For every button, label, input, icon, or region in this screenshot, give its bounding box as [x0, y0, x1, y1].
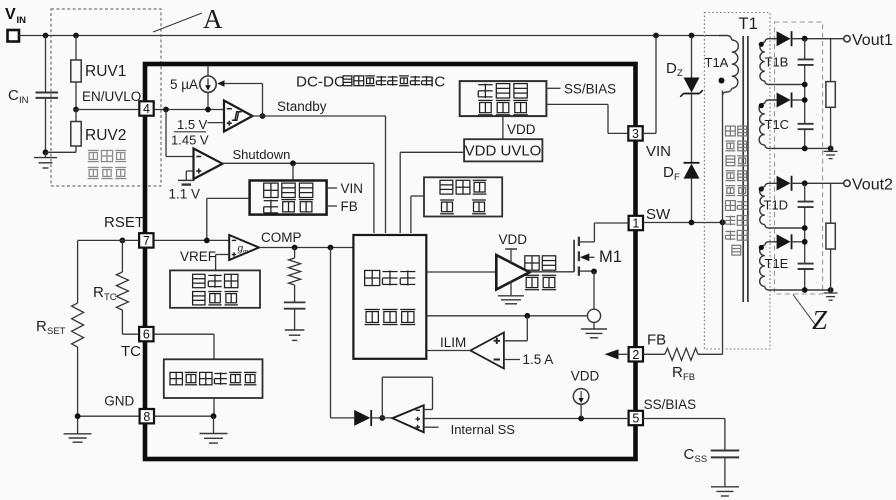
- winding T1A primary: [719, 36, 732, 41]
- svg-text:VIN: VIN: [646, 143, 671, 160]
- block U8 logic control circuit: [353, 235, 426, 359]
- capacitor CIN: [45, 36, 47, 92]
- wire vout2 rail: [792, 182, 844, 184]
- wire EN/UVLO to pin 4: [76, 109, 140, 111]
- block U4 sampling feedback circuit: [250, 181, 327, 215]
- wire pin3 to rail: [643, 132, 656, 134]
- terminal VIN: [8, 30, 20, 42]
- winding T1D: [765, 183, 777, 187]
- svg-text:Vout1: Vout1: [852, 32, 893, 49]
- wire temperature block to gnd: [213, 398, 215, 416]
- node mid vout2: [802, 225, 808, 231]
- svg-text:R: R: [93, 284, 104, 301]
- svg-text:1.5 A: 1.5 A: [523, 352, 554, 367]
- wire pin5 to CSS: [643, 418, 725, 420]
- svg-text:C: C: [684, 446, 695, 463]
- wire ILIM output to logic: [426, 350, 470, 352]
- pin 5 SS/BIAS: [629, 411, 643, 425]
- block U9 thermal shutdown circuit: [424, 177, 502, 216]
- svg-text:IN: IN: [19, 95, 29, 106]
- svg-text:FB: FB: [683, 372, 695, 383]
- svg-text:8: 8: [143, 410, 150, 424]
- svg-text:IN: IN: [17, 15, 27, 26]
- transformer T1 dotted box: [704, 13, 770, 350]
- op-amp U13 ILIM comparator: [470, 333, 504, 369]
- node EN/UVLO junction: [73, 107, 79, 113]
- transformer core: [742, 36, 744, 302]
- pin 7 RSET: [139, 233, 153, 247]
- svg-text:VREF: VREF: [180, 249, 216, 264]
- svg-text:T1E: T1E: [765, 256, 789, 271]
- block U10 VDD UVLO: [464, 139, 542, 161]
- capacitor CSS: [711, 450, 739, 452]
- wire bias block to pin 3: [546, 103, 608, 105]
- resistor RUV2: [75, 110, 77, 122]
- svg-text:IC: IC: [430, 74, 445, 91]
- vertical transformer description text: [726, 126, 736, 136]
- wire RTC to pin6: [122, 333, 139, 335]
- svg-text:D: D: [666, 60, 677, 77]
- svg-text:VDD: VDD: [499, 232, 528, 247]
- phase dot T1D: [759, 186, 764, 191]
- capacitor output C2a: [804, 183, 806, 201]
- svg-text:EN/UVLO: EN/UVLO: [82, 89, 141, 104]
- wire primary return / feedback tap: [722, 91, 724, 355]
- ground vout1: [830, 148, 832, 151]
- winding T1B: [765, 39, 777, 43]
- wire sampling block to pin7 net: [207, 197, 250, 199]
- label undervoltage protection circuit: [88, 149, 99, 151]
- svg-text:6: 6: [143, 328, 150, 342]
- wire pin 7 to error amp: [154, 239, 230, 241]
- svg-text:VDD: VDD: [571, 369, 600, 384]
- undervoltage protection dashed box: [51, 9, 161, 186]
- node ground line vout2: [802, 287, 808, 293]
- svg-text:4: 4: [143, 102, 150, 116]
- svg-text:7: 7: [143, 234, 150, 248]
- wire pin4 to standby comparator: [154, 109, 224, 111]
- wire vdd uvlo to logic: [400, 151, 464, 153]
- svg-text:R: R: [672, 364, 683, 381]
- wire top VIN rail: [19, 35, 719, 37]
- svg-text:5: 5: [632, 412, 639, 426]
- svg-text:3: 3: [632, 127, 639, 141]
- wire RUV2 bottom to CIN: [46, 151, 77, 153]
- svg-text:Z: Z: [812, 305, 828, 335]
- capacitor output C2b: [798, 263, 814, 265]
- terminal Vout1: [844, 36, 850, 42]
- op-amp U3 shutdown comparator: [165, 110, 167, 157]
- svg-text:FB: FB: [341, 199, 358, 214]
- ground pin8: [213, 416, 215, 433]
- wire standby net: [253, 115, 386, 117]
- svg-text:Z: Z: [677, 68, 683, 79]
- svg-text:D: D: [663, 164, 674, 181]
- op-amp U5 gm error amplifier: [229, 235, 259, 260]
- transistor M1 mosfet: [530, 271, 575, 273]
- svg-text:T1: T1: [739, 15, 758, 33]
- resistor compensation: [294, 248, 296, 259]
- output filter dashed box: [775, 22, 823, 294]
- svg-text:M1: M1: [599, 248, 622, 266]
- IC body DC-DC controller: [145, 64, 636, 459]
- resistor load R1: [830, 39, 832, 82]
- svg-text:1.45 V: 1.45 V: [171, 133, 209, 148]
- phase dot T1E: [759, 245, 764, 250]
- wire ILIM plus input: [504, 340, 527, 342]
- svg-text:F: F: [674, 172, 680, 183]
- svg-text:R: R: [36, 318, 47, 335]
- svg-text:SET: SET: [47, 326, 66, 337]
- pin 4 EN/UVLO: [139, 101, 153, 115]
- ground compensation: [285, 329, 305, 331]
- winding T1E: [765, 242, 777, 246]
- wire COMP net to logic: [259, 247, 353, 249]
- diode DF clamp: [684, 162, 700, 164]
- resistor RUV1: [75, 36, 77, 61]
- node standby output: [260, 113, 266, 119]
- ground driver: [510, 281, 512, 295]
- svg-text:VIN: VIN: [341, 181, 364, 196]
- wire shutdown net: [223, 162, 374, 164]
- svg-text:T1C: T1C: [765, 117, 790, 132]
- wire feedback to current source: [262, 84, 264, 117]
- label thresholds 1.5V/1.45V: [208, 122, 225, 124]
- svg-text:ILIM: ILIM: [440, 335, 466, 350]
- phase dot T1A: [719, 78, 725, 84]
- wire VREF to reference block: [216, 254, 230, 256]
- block U11 bias regulation circuit: [460, 81, 547, 116]
- wire pin6 to temperature block: [154, 333, 214, 335]
- diode D3 internal ss: [354, 410, 370, 426]
- wire pin8 to RSET ground net: [78, 415, 140, 417]
- pin 6 TC: [139, 327, 153, 341]
- label Internal SS: [424, 426, 439, 428]
- pin 1 SW: [629, 216, 643, 230]
- wire vout1 rail: [792, 38, 844, 40]
- ground vout2: [830, 290, 832, 293]
- resistor RTC: [121, 240, 123, 272]
- svg-text:V: V: [5, 6, 16, 23]
- winding T1C: [765, 100, 777, 104]
- arrow FB into IC: [605, 349, 619, 359]
- label VIN stub: [327, 187, 337, 189]
- svg-text:T1D: T1D: [764, 198, 789, 213]
- svg-text:m: m: [243, 249, 248, 256]
- svg-text:5 µA: 5 µA: [170, 77, 198, 92]
- diode DZ zener clamp: [691, 36, 693, 78]
- capacitor compensation: [284, 301, 306, 303]
- block U6 reference circuit: [170, 270, 260, 307]
- ground input section: [45, 152, 47, 157]
- svg-text:Internal SS: Internal SS: [451, 422, 516, 437]
- pin 2 FB: [629, 347, 643, 361]
- wire ss net to pin 5: [424, 418, 629, 420]
- svg-text:FB: FB: [647, 332, 666, 349]
- svg-text:T1A: T1A: [705, 55, 729, 70]
- label driver circuit: [525, 256, 539, 270]
- op-amp U2 standby comparator: [224, 101, 253, 132]
- svg-text:Standby: Standby: [277, 99, 327, 114]
- wire SW net: [643, 222, 722, 224]
- node ground line vout1: [802, 146, 808, 152]
- phase dot T1B: [759, 42, 764, 47]
- current source I1 5uA: [207, 66, 209, 76]
- terminal Vout2: [844, 180, 850, 186]
- reference battery 1.1V: [186, 170, 193, 172]
- svg-text:SS/BIAS: SS/BIAS: [564, 81, 616, 96]
- diode D5 stacked vout1: [777, 93, 791, 108]
- svg-text:COMP: COMP: [261, 230, 302, 245]
- ground CSS: [711, 486, 739, 488]
- svg-text:A: A: [203, 4, 223, 34]
- svg-text:RSET: RSET: [104, 214, 144, 231]
- svg-text:VDD UVLO: VDD UVLO: [465, 143, 542, 160]
- diode D6 output vout2: [777, 176, 791, 191]
- diode D7 stacked vout2: [777, 234, 791, 249]
- pin 8 GND: [140, 409, 154, 423]
- current sense element: [587, 309, 600, 322]
- op-amp U14 soft start buffer: [392, 405, 423, 432]
- op-amp U12 driver: [426, 271, 496, 273]
- svg-text:SW: SW: [646, 206, 671, 223]
- svg-text:DC-DC: DC-DC: [296, 74, 345, 91]
- svg-text:RUV1: RUV1: [85, 63, 126, 80]
- svg-text:2: 2: [632, 348, 639, 362]
- svg-text:SS: SS: [695, 454, 708, 465]
- wire pin8 gnd: [154, 415, 214, 417]
- capacitor output C1a: [804, 39, 806, 59]
- node CIN bottom junction: [43, 149, 49, 155]
- resistor RFB: [643, 353, 665, 355]
- capacitor output C1b: [798, 123, 814, 125]
- ground RSET: [64, 433, 92, 435]
- svg-text:Shutdown: Shutdown: [233, 147, 291, 162]
- phase dot T1C: [759, 103, 764, 108]
- block U7 temperature compensation circuit: [164, 359, 263, 398]
- svg-text:SS/BIAS: SS/BIAS: [644, 397, 697, 412]
- node mid vout1: [802, 82, 808, 88]
- label SS/BIAS stub: [546, 87, 560, 89]
- wire ss buffer feedback: [381, 377, 383, 418]
- resistor RSET: [77, 240, 79, 303]
- label FB stub: [327, 205, 337, 207]
- callout line to Z: [793, 295, 816, 326]
- svg-text:Vout2: Vout2: [852, 177, 893, 194]
- resistor load R2: [830, 183, 832, 223]
- svg-text:TC: TC: [121, 343, 141, 360]
- label 1.5A: [504, 359, 520, 361]
- pin 3 VIN: [628, 126, 642, 140]
- callout line to A: [153, 13, 202, 32]
- wire comp node to internal ss: [330, 248, 332, 418]
- diode D4 output vout1: [777, 31, 791, 46]
- wire logic to sense line: [426, 315, 587, 317]
- svg-text:T1B: T1B: [765, 55, 789, 70]
- svg-text:RUV2: RUV2: [85, 127, 126, 144]
- svg-text:VDD: VDD: [507, 122, 536, 137]
- wire thermal to logic: [411, 195, 424, 197]
- svg-text:1: 1: [632, 217, 639, 231]
- svg-text:1.1 V: 1.1 V: [169, 187, 201, 202]
- svg-text:1.5 V: 1.5 V: [177, 117, 208, 132]
- label VDD bias: [502, 116, 504, 139]
- svg-text:TC: TC: [104, 292, 117, 303]
- svg-text:GND: GND: [104, 394, 134, 409]
- svg-text:C: C: [8, 87, 19, 104]
- node junctions en/uvlo internal: [163, 107, 169, 113]
- node rail junctions: [43, 33, 49, 39]
